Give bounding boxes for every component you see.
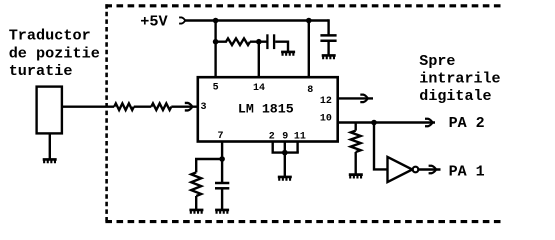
capacitor C1 plates [266, 34, 268, 49]
ground (C2) [322, 54, 336, 59]
wire: R2 to pin 3 [171, 105, 197, 107]
ground (pins 2,9,11) [278, 176, 292, 181]
node: junction R3/C1/pin14 [256, 39, 262, 45]
svg-text:Traductor: Traductor [9, 26, 91, 44]
svg-text:turatie: turatie [9, 62, 73, 80]
svg-text:de pozitie: de pozitie [9, 45, 100, 63]
svg-text:14: 14 [253, 83, 265, 94]
wire: C1 to ground [275, 42, 288, 51]
wire: pin 12 output [338, 97, 373, 99]
wire: transducer to ground stem [49, 133, 51, 158]
wire: tie pins 2-9-11 [272, 151, 299, 153]
node: junction pin7/R4/C3 [219, 156, 225, 162]
wire: transducer output to R1 [62, 105, 114, 107]
resistor R5 (pin 10 pulldown) [355, 123, 357, 131]
wire: pins 2-9-11 to ground [284, 153, 286, 176]
svg-text:9: 9 [282, 132, 288, 143]
svg-text:12: 12 [320, 96, 332, 107]
svg-text:8: 8 [307, 85, 313, 96]
svg-text:2: 2 [269, 132, 275, 143]
arrow PA 2 [425, 118, 434, 128]
wire: pin 8 stem [308, 21, 310, 79]
svg-text:+5V: +5V [140, 13, 168, 31]
wire: pin 7 stem down [221, 141, 223, 182]
ground (R5) [349, 173, 363, 178]
transducer box [37, 87, 62, 134]
svg-text:11: 11 [294, 132, 306, 143]
arrow PA 1 [429, 165, 438, 175]
resistor R2 (series input) [151, 103, 171, 110]
resistor R1 (series input) [114, 103, 134, 110]
op-amp IC U1 LM1815 body [198, 77, 338, 141]
svg-text:7: 7 [218, 131, 224, 142]
wire: pin 10 output to PA2 [338, 121, 435, 123]
svg-text:10: 10 [320, 114, 332, 125]
+5V supply connector chevron [179, 16, 186, 24]
wire: +5V rail [185, 19, 328, 21]
wire: rail corner down to C2 [327, 21, 328, 35]
svg-text:LM 1815: LM 1815 [238, 102, 294, 117]
wire: R5 to ground [355, 152, 357, 174]
svg-text:PA 1: PA 1 [449, 162, 485, 180]
ground (transducer) [43, 158, 57, 163]
node: junction at pin5/R3 [213, 39, 219, 45]
wire: R4 to ground [195, 196, 197, 209]
wire: R1 to R2 [134, 105, 152, 107]
inverter U2 triangle [388, 157, 413, 182]
wire: R3 to C1 node [250, 41, 267, 43]
wire: inverter output to PA1 [418, 168, 440, 170]
svg-text:3: 3 [201, 102, 207, 113]
svg-text:digitale: digitale [419, 87, 491, 105]
capacitor C3 plates [215, 182, 229, 185]
arrow pin 12 output [360, 94, 369, 104]
dashed boundary box: bottom edge [105, 220, 501, 223]
node: rail junction above pin 8 [306, 18, 312, 24]
resistor R4 (pin 7) [191, 172, 201, 196]
inverter U2 output bubble [413, 167, 419, 173]
wire: C2 to ground [327, 41, 329, 55]
resistor R3 (filter) [216, 38, 250, 45]
wire: pin 5 stem (rail to IC) [214, 21, 216, 79]
wire: pin 11 stem [296, 141, 298, 153]
node: junction at pin 9 [282, 150, 288, 156]
svg-text:intrarile: intrarile [419, 70, 500, 88]
wire: branch left to R4 [196, 159, 222, 172]
wire: pin 9 stem [284, 141, 286, 153]
ground (R4) [189, 209, 203, 214]
wire: pin 14 stem [258, 42, 260, 78]
svg-text:Spre: Spre [419, 52, 455, 70]
wire: pin 2 stem [272, 141, 274, 153]
wire: junction down to inverter [374, 123, 387, 170]
node: junction on pin 10 net [371, 120, 377, 126]
dashed boundary box: top edge [105, 4, 502, 7]
node: rail junction above pin 5 [213, 18, 219, 24]
wire: C3 to ground [221, 188, 223, 209]
dashed boundary box: left edge [105, 4, 108, 223]
svg-text:5: 5 [213, 83, 219, 94]
svg-text:PA 2: PA 2 [449, 114, 485, 132]
arrow into pin 3 [185, 102, 194, 112]
capacitor C2 plates [320, 34, 336, 37]
ground (C1) [281, 51, 295, 56]
ground (C3) [215, 209, 229, 214]
